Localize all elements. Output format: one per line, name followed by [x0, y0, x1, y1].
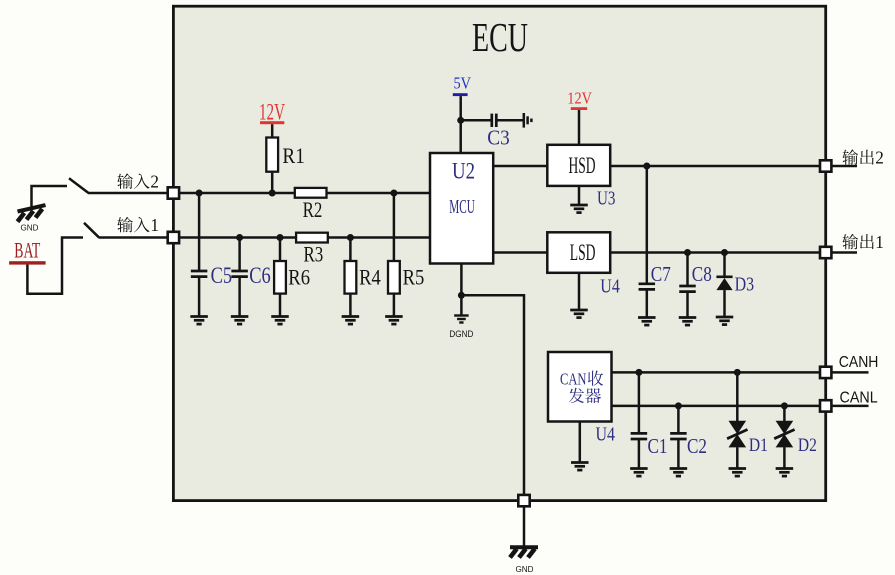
svg-text:R4: R4: [359, 264, 381, 289]
ground below C5: [190, 315, 208, 318]
diode D3: [723, 253, 726, 277]
capacitor C5: [198, 193, 201, 271]
wire BAT loop to switch S1: [27, 238, 83, 294]
svg-text:HSD: HSD: [569, 153, 596, 178]
svg-text:U2: U2: [452, 158, 475, 183]
wire output-2 external: [831, 165, 857, 168]
ground below R4: [342, 315, 360, 318]
wire 12V to HSD: [578, 110, 581, 145]
node C6/row1 junction: [236, 234, 243, 241]
node C1/CANH junction: [635, 369, 642, 376]
ground below C1: [630, 467, 648, 470]
connector CANL: [820, 400, 831, 411]
capacitor C7 plates: [639, 282, 656, 285]
wire HSD to output-2 connector: [610, 165, 826, 168]
svg-text:U4: U4: [596, 424, 616, 446]
power 12V bar (right): [571, 107, 587, 110]
ground GND1 chassis symbol: [18, 205, 46, 211]
svg-text:D2: D2: [798, 435, 817, 456]
wire U2 to HSD: [493, 165, 547, 168]
svg-text:D1: D1: [749, 435, 768, 456]
wire LSD to ground: [578, 273, 581, 310]
wire net input-2 row: [173, 192, 430, 195]
svg-text:C3: C3: [487, 125, 510, 149]
can transceiver box: [548, 352, 612, 422]
mcu U2 box: [430, 153, 493, 264]
label input-2 (Chinese): [117, 173, 133, 188]
connector output-1: [820, 247, 831, 258]
wire DGND node to bottom stem: [461, 295, 524, 500]
resistor R6: [279, 238, 282, 262]
driver HSD box: [547, 145, 610, 186]
switch S1 blade: [84, 223, 99, 238]
wire CANH external: [831, 371, 868, 374]
node C2/CANL junction: [675, 402, 682, 409]
svg-text:C2: C2: [687, 434, 707, 458]
svg-text:DGND: DGND: [449, 329, 473, 339]
switch S2 blade: [69, 178, 89, 193]
svg-text:C8: C8: [692, 262, 712, 286]
connector output-2: [820, 160, 831, 171]
svg-text:LSD: LSD: [570, 240, 596, 265]
ground below D1: [729, 467, 747, 470]
connector CANH: [820, 367, 831, 378]
svg-text:ECU: ECU: [472, 14, 528, 60]
svg-text:CANH: CANH: [839, 354, 879, 371]
svg-text:CAN: CAN: [560, 370, 587, 389]
ground DGND: [460, 295, 463, 315]
tvs diode D1: [736, 372, 739, 421]
ground below C7: [638, 316, 656, 319]
battery BAT terminal bar: [9, 261, 46, 264]
svg-text:C6: C6: [249, 263, 271, 289]
wire GND1 riser to switch S2: [32, 186, 68, 208]
node C5/row2 junction: [196, 190, 203, 197]
wire bottom connector to GND2: [523, 506, 526, 546]
label input-1 (Chinese): [117, 217, 133, 232]
svg-text:R2: R2: [303, 197, 323, 222]
wire U2 to LSD: [493, 251, 547, 254]
wire CAN box to ground: [579, 422, 582, 463]
connector input-1 on ECU border: [168, 232, 179, 243]
resistor R4: [349, 238, 352, 262]
svg-text:1: 1: [875, 232, 884, 252]
wire output-1 external: [831, 251, 857, 254]
wire 5V down to U2: [459, 96, 462, 153]
svg-text:C1: C1: [648, 434, 668, 458]
connector bottom ground: [518, 495, 529, 506]
ground below R5: [385, 315, 403, 318]
wire net input-1 row: [173, 236, 430, 239]
svg-text:5V: 5V: [454, 74, 472, 93]
wire switch S1 to input-1 connector: [99, 236, 174, 239]
ground below C2: [670, 467, 688, 470]
node 5V/C3 junction: [457, 117, 464, 124]
resistor R3 body: [296, 233, 328, 243]
svg-text:R1: R1: [282, 143, 304, 168]
svg-text:D3: D3: [735, 274, 755, 296]
ground right of C3 (rotated): [523, 113, 526, 128]
svg-text:U4: U4: [600, 276, 620, 298]
ground below LSD: [570, 309, 588, 312]
svg-text:GND: GND: [516, 564, 534, 574]
wire R1 to row2: [271, 172, 274, 193]
power 5V bar: [453, 93, 468, 96]
wire U2 bottom to DGND node: [460, 264, 463, 296]
wire 12V to R1: [271, 124, 274, 137]
svg-text:2: 2: [875, 148, 884, 168]
wire CANH row: [612, 371, 826, 374]
svg-text:1: 1: [150, 215, 159, 235]
resistor R5: [393, 193, 396, 261]
svg-text:12V: 12V: [259, 100, 285, 125]
capacitor C6: [238, 238, 241, 272]
resistor R1 body: [266, 138, 278, 172]
ground below D3: [716, 316, 734, 319]
node R1/row2 junction: [269, 190, 276, 197]
power 12V bar (left): [260, 121, 284, 124]
svg-text:R6: R6: [288, 264, 310, 289]
svg-text:CANL: CANL: [840, 390, 878, 407]
connector input-2 on ECU border: [168, 187, 179, 198]
node D2/CANL junction: [781, 402, 788, 409]
node R4/row1 junction: [347, 234, 354, 241]
ground below CAN box: [571, 461, 589, 464]
wire C3 to ground: [496, 119, 523, 122]
capacitor C3 plates: [490, 114, 493, 127]
svg-text:R3: R3: [304, 242, 324, 267]
wire output-2 node down to C7: [646, 166, 649, 284]
capacitor C1: [638, 372, 641, 433]
capacitor C8: [686, 253, 689, 287]
resistor R2 body: [295, 188, 327, 198]
svg-text:C5: C5: [211, 263, 233, 289]
label output-2 (Chinese): [842, 149, 858, 164]
wire CANL external: [831, 405, 868, 408]
wire LSD to output-1 connector: [610, 251, 826, 254]
svg-text:MCU: MCU: [449, 197, 475, 218]
node D3/output-1 junction: [721, 249, 728, 256]
ground below R6: [271, 315, 289, 318]
driver LSD box: [547, 232, 610, 272]
svg-text:R5: R5: [403, 264, 425, 289]
svg-text:BAT: BAT: [14, 237, 40, 262]
label CAN transceiver line2: [569, 388, 584, 403]
svg-text:GND: GND: [21, 223, 39, 233]
node C8/output-1 junction: [684, 249, 691, 256]
ECU enclosure box: [173, 6, 825, 500]
node DGND junction: [458, 292, 465, 299]
ground below C8: [679, 316, 697, 319]
node D1/CANH junction: [734, 369, 741, 376]
ground below C6: [231, 315, 249, 318]
tvs diode D2: [783, 406, 786, 421]
ground below D2: [776, 467, 794, 470]
wire switch S2 to input-2 connector: [88, 192, 173, 195]
ground GND2 chassis symbol: [510, 545, 538, 549]
ground below HSD: [570, 204, 588, 207]
svg-text:C7: C7: [651, 262, 671, 286]
wire HSD to ground: [578, 186, 581, 205]
node output-2/C7 junction: [643, 163, 650, 170]
node R6/row1 junction: [277, 234, 284, 241]
label output-1 (Chinese): [842, 234, 858, 249]
wire CANL row: [612, 405, 826, 408]
capacitor C2: [677, 406, 680, 434]
node R5/row2 junction: [390, 190, 397, 197]
wire junction to C3: [461, 119, 492, 122]
svg-text:2: 2: [150, 172, 159, 192]
svg-text:U3: U3: [597, 188, 616, 210]
svg-text:12V: 12V: [567, 89, 592, 108]
